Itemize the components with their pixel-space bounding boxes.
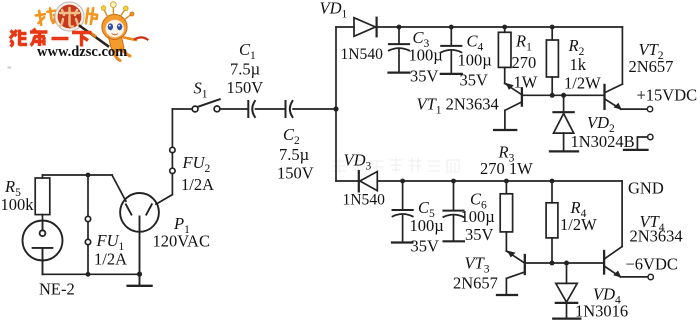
logo char zhao [35,8,58,26]
svg-text:100µ: 100µ [458,51,492,70]
resistor R1 [498,27,511,83]
chassis bar under VD4 [553,317,580,319]
svg-text:150V: 150V [227,78,264,97]
wire: bottom left horizontal [43,273,140,275]
svg-text:+15VDC: +15VDC [637,86,698,105]
node: R2 top [550,25,555,30]
svg-text:S1: S1 [194,79,208,101]
svg-text:2N657: 2N657 [453,274,498,293]
node: R3 top [504,179,509,184]
logo magnifier ring [56,3,82,29]
node: C4 top [449,25,454,30]
wire: mid rail left [336,180,359,182]
neon lamp NE-2 [23,221,63,275]
terminal common upper [637,134,653,149]
svg-text:−6VDC: −6VDC [626,255,678,274]
wire: top right corner down [621,27,623,84]
transistor VT3 [506,251,524,295]
logo watermark dzsc [8,2,148,69]
svg-text:1N540: 1N540 [343,192,386,209]
node: C6 top [451,179,456,184]
transistor VT1 [505,83,522,129]
wire: left top horizontal [43,175,126,201]
capacitor C4 [441,27,462,74]
switch S1 [192,99,220,112]
ground under VT1 [494,129,516,131]
zener diode VD2 [554,95,574,151]
svg-text:35V: 35V [411,237,440,256]
capacitor C5 [392,181,413,243]
svg-text:2N657: 2N657 [629,57,674,76]
svg-text:2N3634: 2N3634 [630,227,683,246]
resistor R2 [546,27,558,95]
svg-text:35V: 35V [410,67,439,86]
resistor R3 [500,181,512,251]
wire: left node vertical [335,27,337,181]
node: FU1 bottom junction [86,272,91,277]
svg-text:R1: R1 [515,32,532,54]
wire: mid rail [377,180,622,182]
logo mascot pen [80,26,108,46]
svg-text:GND: GND [628,179,664,198]
capacitor C2 [286,101,293,117]
svg-text:VD3: VD3 [344,151,372,173]
svg-text:NE-2: NE-2 [39,280,75,299]
node: VD2 top [561,93,566,98]
svg-text:100µ: 100µ [461,207,495,226]
fuse FU1 [85,175,90,274]
logo mascot body [109,37,125,52]
resistor R4 [546,181,558,263]
chassis bar under VD2 [550,150,578,152]
svg-text:VT3: VT3 [465,254,490,276]
wire: C1 to C2 [256,108,286,110]
svg-text:1/2W: 1/2W [564,74,601,93]
svg-text:270: 270 [512,53,537,72]
fuse FU2 [156,109,175,204]
wire: switch to corner [172,108,192,110]
svg-text:100µ: 100µ [409,46,443,65]
svg-text:C2: C2 [283,125,300,147]
svg-text:VD1: VD1 [320,0,348,21]
transistor VT2 [605,84,648,109]
svg-text:1/2A: 1/2A [94,250,127,269]
resistor R5 [35,175,50,220]
capacitor C6 [443,181,464,241]
node: R4 bottom [550,261,555,266]
node: R4 top [550,179,555,184]
svg-text:120VAC: 120VAC [153,232,210,251]
logo mascot antennae [104,7,131,20]
faint watermark [333,158,459,173]
gray speck [8,67,12,69]
svg-text:1N3024B: 1N3024B [571,132,635,151]
svg-text:35V: 35V [460,71,489,90]
node: C5 top [400,179,405,184]
arrow VT4 emitter [613,271,621,278]
terminal +15VDC [647,106,652,111]
svg-text:1/2A: 1/2A [181,175,214,194]
diode VD1 [354,18,377,37]
svg-text:35V: 35V [465,225,494,244]
svg-text:1N3016: 1N3016 [575,302,628,321]
node: plug stem junction [137,272,142,277]
node: main junction [333,106,338,111]
node: R2 bottom [550,93,555,98]
wire: base line top [522,94,605,96]
arrow VT1 emitter [506,83,514,90]
logo mascot face [105,20,124,38]
svg-text:1W: 1W [514,73,538,92]
svg-text:100µ: 100µ [410,216,444,235]
arrow VT2 emitter [614,103,622,110]
arrow VT3 emitter [507,251,515,258]
zener diode VD4 [556,263,577,318]
ground under VT3 [497,294,517,296]
svg-text:270 1W: 270 1W [480,159,533,178]
capacitor C1 [248,101,255,117]
svg-text:www.dzsc.com: www.dzsc.com [37,44,127,60]
logo char pian [86,8,98,25]
node: VD4 top [564,261,569,266]
svg-text:7.5µ: 7.5µ [279,145,309,164]
node: C3 top [397,25,402,30]
wire: top rail [377,26,623,28]
svg-text:150V: 150V [277,164,314,183]
wire: C2 to node [293,108,336,110]
logo mascot bulbs [101,6,106,11]
svg-text:VT1 2N3634: VT1 2N3634 [417,95,499,117]
logo mascot head [102,14,127,39]
wire: mid rail right corner down [621,181,623,247]
wire: top rail left [336,26,354,28]
diode VD3 [359,171,378,191]
logo text weiku red chars [10,29,92,47]
node: junction R5/FU1 top [86,173,91,178]
svg-text:100k: 100k [1,195,35,214]
svg-text:FU2: FU2 [182,153,211,175]
node: R1 top [502,25,507,30]
ground bar under plug [128,285,152,287]
svg-text:7.5µ: 7.5µ [230,60,260,79]
svg-text:1k: 1k [570,55,587,74]
plug P1 [120,193,159,286]
logo mascot legs [114,49,130,61]
logo mascot arm flag [124,38,136,41]
svg-text:1/2W: 1/2W [560,215,597,234]
capacitor C3 [389,27,410,73]
terminal -6VDC [648,274,653,279]
wire: switch to C1 [220,108,248,110]
chassis bar terminal [624,149,648,151]
transistor VT4 [604,247,648,277]
svg-text:1N540: 1N540 [341,46,384,63]
logo char xin [60,8,79,27]
wire: base line bottom [525,262,604,264]
